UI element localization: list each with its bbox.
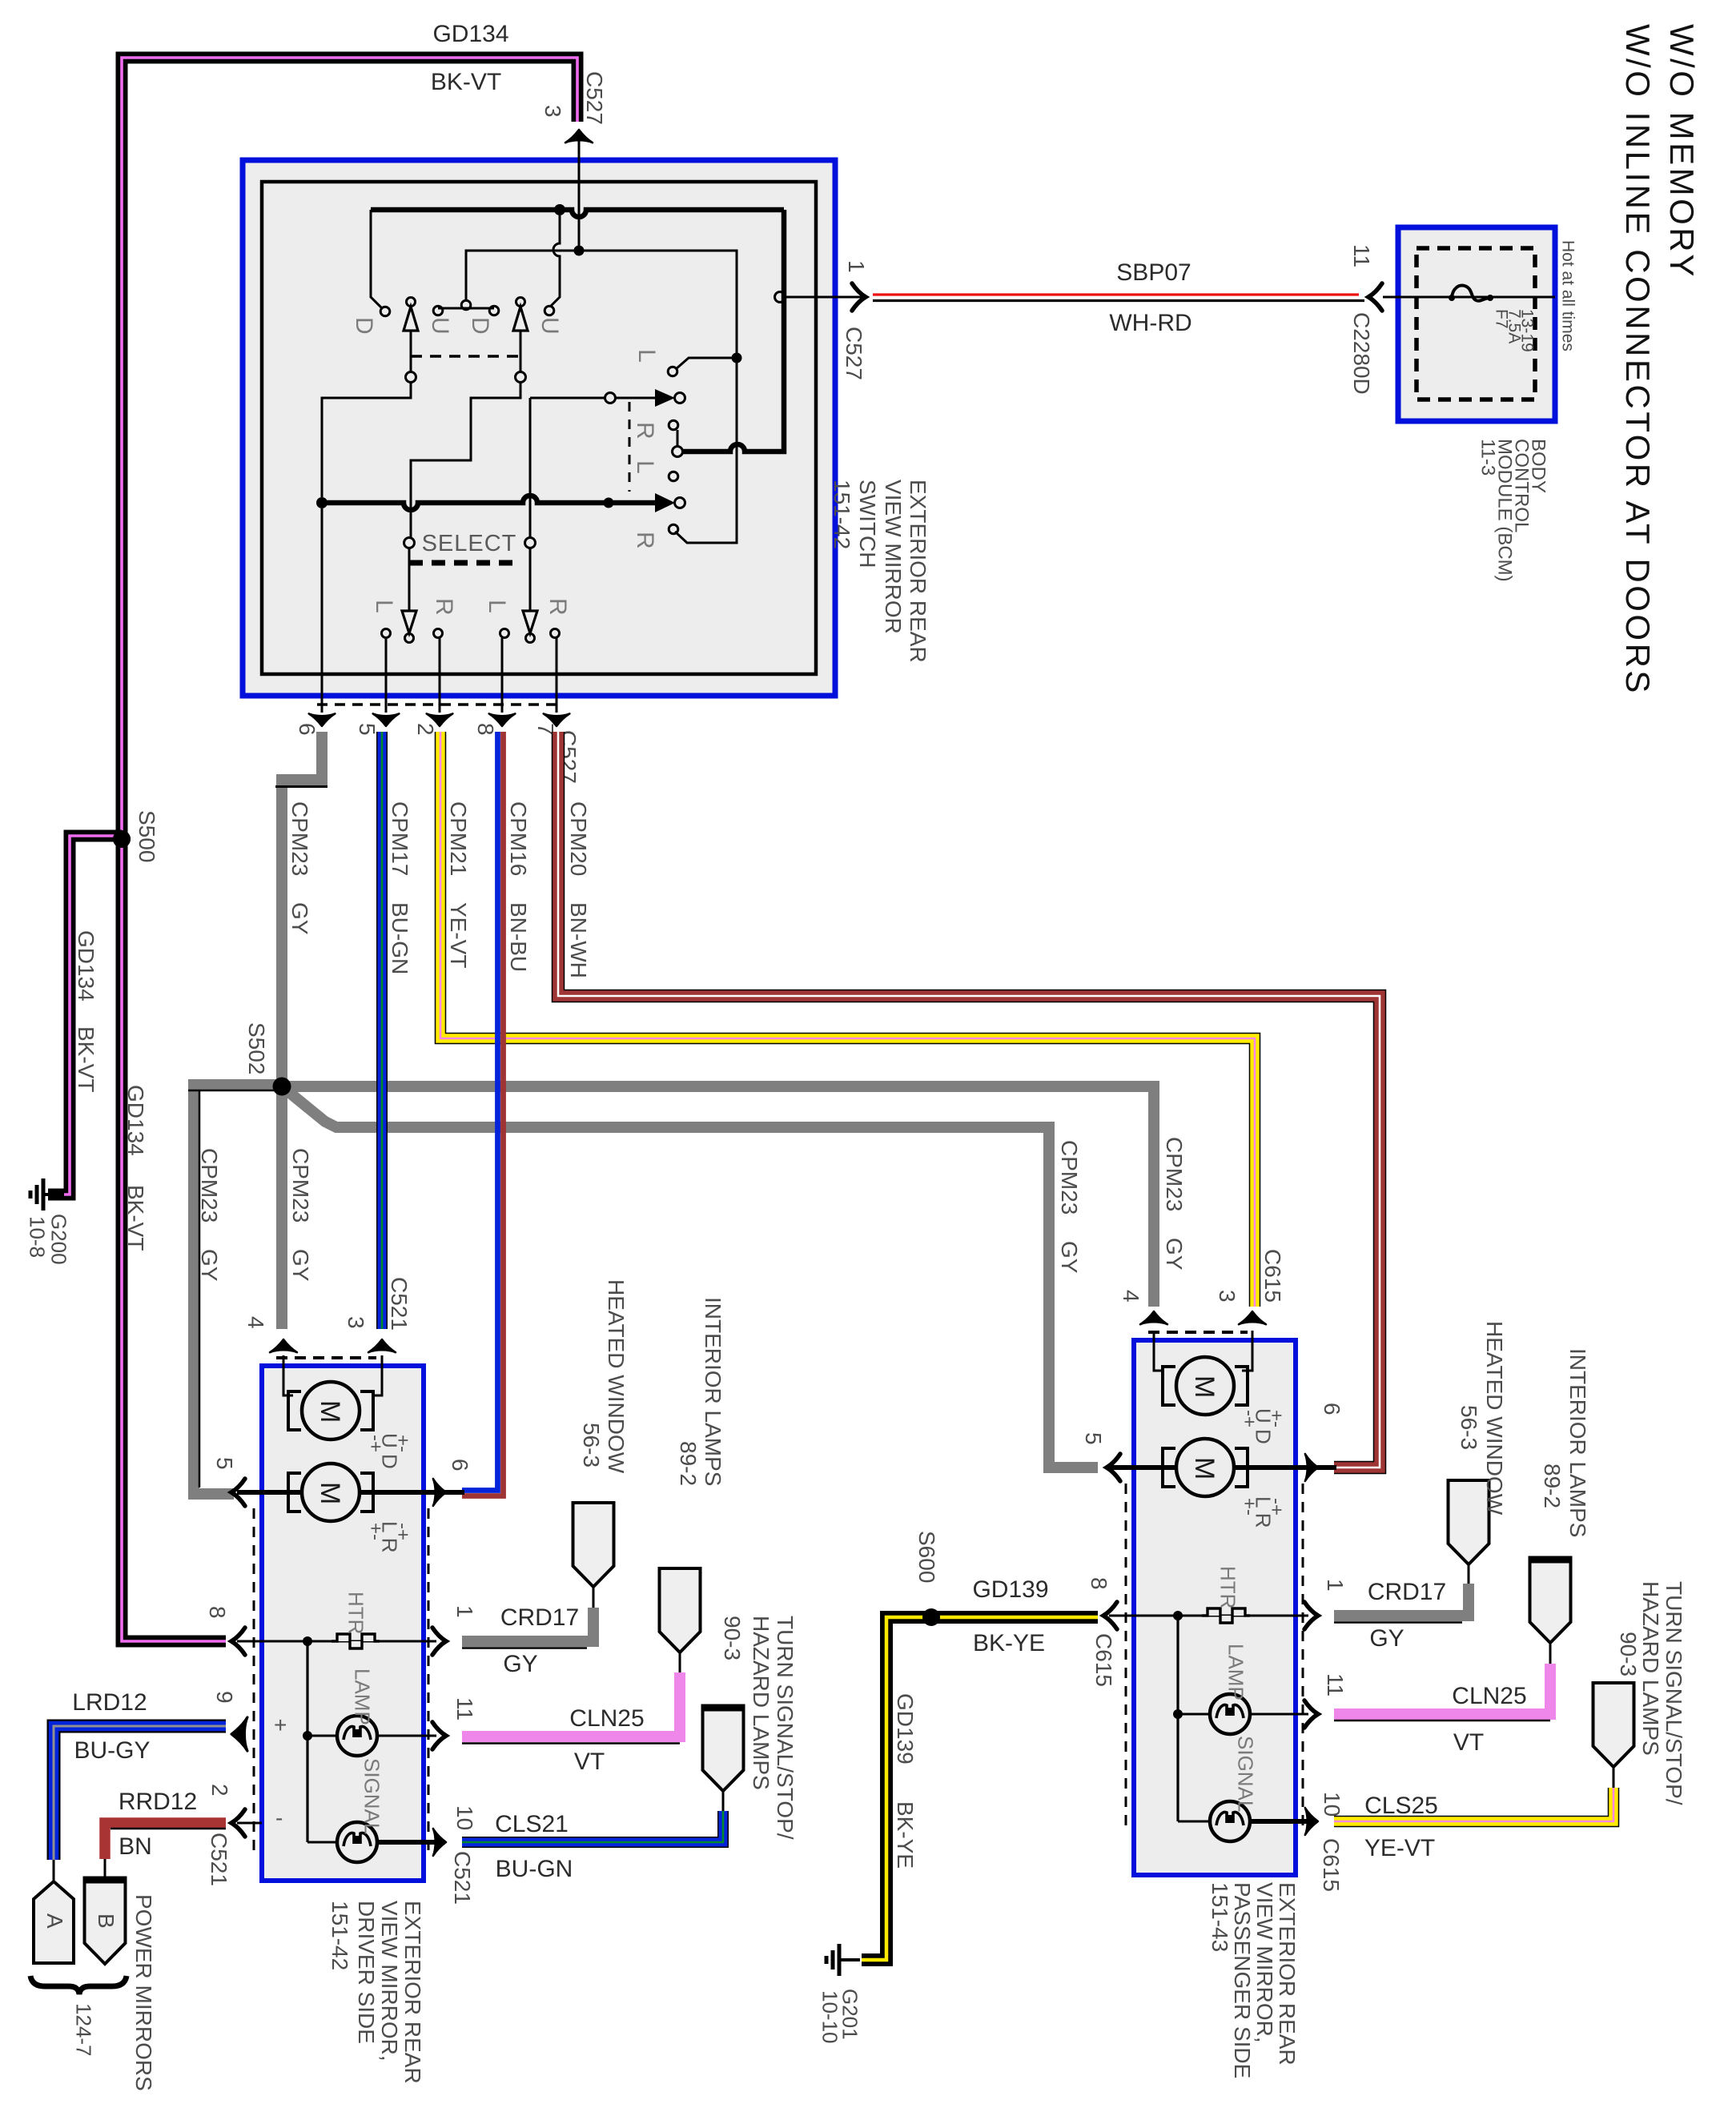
svg-text:EXTERIOR REAR: EXTERIOR REAR bbox=[906, 480, 930, 663]
switch connector dashed line bbox=[317, 703, 561, 706]
contact ring L top bbox=[668, 367, 677, 376]
wire CLN25 VT driver bbox=[462, 1672, 680, 1737]
svg-text:3: 3 bbox=[344, 1316, 368, 1329]
driver connector dashed left bbox=[253, 1508, 255, 1856]
wire SBP07 black line bbox=[873, 299, 1364, 302]
svg-text:C527: C527 bbox=[842, 327, 866, 380]
pin8 line in switch bbox=[501, 638, 504, 713]
second line right segment bbox=[579, 251, 737, 543]
wire CLS21 BU-GN driver bbox=[462, 1811, 723, 1842]
wire CPM23 GY from pin6 bbox=[282, 732, 322, 1082]
svg-text:CPM23: CPM23 bbox=[287, 801, 312, 876]
svg-text:10: 10 bbox=[452, 1805, 477, 1830]
ground G200 bbox=[44, 1193, 64, 1196]
svg-text:CLS25: CLS25 bbox=[1364, 1793, 1438, 1819]
exterior rear view mirror switch box bbox=[243, 160, 835, 696]
node S502 bbox=[273, 1078, 291, 1095]
svg-text:90-3: 90-3 bbox=[720, 1616, 745, 1660]
thick drop right and R-upper feed bbox=[683, 210, 784, 452]
left pole to select-bus path bbox=[322, 382, 411, 497]
svg-text:A: A bbox=[42, 1913, 67, 1929]
dashed link LR poles bbox=[629, 402, 631, 492]
flag turn signal driver bbox=[703, 1707, 744, 1791]
contact ring D left bbox=[380, 307, 390, 316]
svg-text:BN: BN bbox=[119, 1833, 152, 1860]
blade arrow UD right pole bbox=[516, 298, 525, 307]
svg-text:D: D bbox=[467, 317, 493, 335]
upper L/R line bbox=[530, 397, 605, 400]
node dot on vertical x920 bbox=[732, 353, 742, 363]
passenger dashed right bbox=[1302, 1484, 1304, 1832]
passenger dashed top bbox=[1148, 1331, 1248, 1334]
second line from pin3 bbox=[466, 251, 579, 299]
select blade left bbox=[408, 548, 411, 612]
node S502 overlay dot bbox=[273, 1078, 291, 1096]
svg-text:EXTERIOR REAR: EXTERIOR REAR bbox=[1275, 1882, 1300, 2066]
svg-text:M: M bbox=[1189, 1457, 1220, 1480]
wire GD134 BK-VT ground branch bbox=[48, 836, 122, 1195]
node S500 overlay dot bbox=[113, 830, 131, 848]
svg-text:90-3: 90-3 bbox=[1616, 1632, 1641, 1676]
wire BK-VT to driver pin 8 bbox=[122, 1633, 226, 1641]
connector A flag bbox=[34, 1881, 74, 1963]
svg-text:-: - bbox=[275, 1805, 283, 1830]
svg-text:HAZARD LAMPS: HAZARD LAMPS bbox=[1638, 1581, 1663, 1756]
svg-text:GY: GY bbox=[197, 1249, 222, 1282]
svg-text:-+: -+ bbox=[392, 1523, 413, 1540]
svg-text:CPM17: CPM17 bbox=[388, 801, 412, 876]
svg-text:R: R bbox=[431, 598, 457, 616]
svg-text:CPM20: CPM20 bbox=[566, 801, 591, 876]
svg-text:BK-YE: BK-YE bbox=[973, 1630, 1045, 1656]
svg-text:INTERIOR LAMPS: INTERIOR LAMPS bbox=[1565, 1348, 1590, 1537]
svg-text:HTR: HTR bbox=[1216, 1566, 1240, 1608]
svg-text:LRD12: LRD12 bbox=[72, 1689, 147, 1716]
driver pin 9 arrow bbox=[231, 1717, 247, 1751]
driver lamp bulb bbox=[337, 1716, 377, 1756]
svg-text:L: L bbox=[633, 349, 660, 363]
svg-text:10-8: 10-8 bbox=[26, 1216, 50, 1258]
svg-text:M: M bbox=[315, 1482, 345, 1504]
select bus tap dot bbox=[604, 498, 614, 508]
svg-text:GD139: GD139 bbox=[893, 1693, 918, 1765]
svg-text:CPM23: CPM23 bbox=[1057, 1140, 1082, 1215]
pin 1 arrow bbox=[852, 283, 866, 311]
driver signal bulb bbox=[337, 1822, 377, 1862]
svg-text:56-3: 56-3 bbox=[1457, 1405, 1481, 1450]
select contacts bbox=[404, 538, 415, 548]
select bus blade segment bbox=[613, 500, 655, 506]
svg-text:CLS21: CLS21 bbox=[495, 1811, 569, 1837]
body control module box bbox=[1398, 227, 1555, 421]
svg-text:U: U bbox=[427, 317, 453, 335]
bus left drop to D contact bbox=[371, 210, 382, 308]
pin1 tap ring bbox=[775, 292, 786, 303]
driver pin 11 arrow bbox=[432, 1722, 446, 1749]
svg-text:DRIVER SIDE: DRIVER SIDE bbox=[354, 1901, 379, 2044]
passenger pin 4 arrow bbox=[1140, 1311, 1167, 1324]
svg-text:BU-GN: BU-GN bbox=[496, 1856, 573, 1882]
driver SIGNAL elbow bbox=[307, 1841, 336, 1844]
passenger pin 3 arrow bbox=[1239, 1311, 1266, 1324]
passenger motor UD bbox=[1163, 1367, 1175, 1405]
flag heated window passenger bbox=[1449, 1480, 1489, 1564]
contact ring U left bbox=[433, 306, 443, 315]
svg-text:1: 1 bbox=[452, 1605, 477, 1618]
wire CPM23 GY S502 to passenger pin4 bbox=[282, 1086, 1154, 1307]
svg-text:R: R bbox=[632, 532, 658, 549]
svg-text:POWER MIRRORS: POWER MIRRORS bbox=[131, 1894, 156, 2091]
svg-text:3: 3 bbox=[1215, 1290, 1240, 1303]
contact ring D right bbox=[489, 306, 499, 315]
passenger pin 10 arrow bbox=[1305, 1808, 1318, 1835]
svg-text:3: 3 bbox=[540, 105, 565, 118]
passenger pin 8 arrow bbox=[1103, 1602, 1117, 1629]
svg-text:W/O MEMORY: W/O MEMORY bbox=[1663, 24, 1701, 279]
select blade right bbox=[529, 548, 532, 612]
svg-text:8: 8 bbox=[473, 723, 498, 736]
wire CRD17 GY driver bbox=[462, 1608, 593, 1641]
svg-text:1: 1 bbox=[1323, 1579, 1348, 1592]
svg-text:VIEW MIRROR,: VIEW MIRROR, bbox=[377, 1901, 402, 2062]
wire SBP07 red stripe bbox=[873, 293, 1359, 295]
svg-text:M: M bbox=[1189, 1375, 1220, 1398]
svg-text:LAMP: LAMP bbox=[351, 1668, 375, 1725]
svg-text:8: 8 bbox=[1087, 1577, 1111, 1590]
svg-text:4: 4 bbox=[243, 1316, 268, 1329]
svg-text:B: B bbox=[94, 1913, 119, 1929]
passenger pin 6 arrow bbox=[1305, 1454, 1318, 1481]
svg-text:HEATED WINDOW: HEATED WINDOW bbox=[604, 1279, 629, 1474]
svg-text:5: 5 bbox=[212, 1457, 237, 1470]
flag interior lamps passenger bbox=[1530, 1559, 1571, 1643]
svg-text:EXTERIOR REAR: EXTERIOR REAR bbox=[400, 1901, 425, 2084]
passenger lamp bulb bbox=[1210, 1694, 1250, 1734]
svg-text:GY: GY bbox=[288, 1249, 313, 1282]
svg-text:11: 11 bbox=[452, 1697, 477, 1720]
driver HTR line bbox=[237, 1640, 436, 1643]
svg-text:D: D bbox=[351, 317, 377, 335]
svg-text:10: 10 bbox=[1320, 1792, 1344, 1817]
pin1 line bbox=[786, 296, 862, 299]
wire CLN25 VT passenger bbox=[1334, 1664, 1550, 1714]
driver pin 4 arrow bbox=[270, 1339, 297, 1352]
svg-text:SWITCH: SWITCH bbox=[855, 480, 880, 568]
passenger signal bulb bbox=[1210, 1801, 1250, 1841]
pole ring thick bbox=[673, 447, 683, 457]
BCM fuse dashed box bbox=[1417, 248, 1535, 400]
svg-text:11-3: 11-3 bbox=[1477, 439, 1498, 476]
svg-text:TURN SIGNAL/STOP/: TURN SIGNAL/STOP/ bbox=[773, 1616, 798, 1840]
driver LR line bbox=[237, 1490, 464, 1495]
svg-text:PASSENGER SIDE: PASSENGER SIDE bbox=[1230, 1882, 1255, 2078]
svg-text:+-: +- bbox=[392, 1435, 413, 1452]
ground G201 bbox=[840, 1958, 860, 1961]
svg-text:GY: GY bbox=[1369, 1625, 1404, 1652]
svg-text:C615: C615 bbox=[1319, 1838, 1344, 1892]
svg-text:5: 5 bbox=[1081, 1432, 1106, 1445]
svg-text:+: + bbox=[274, 1712, 287, 1737]
select blade arrow lower bbox=[655, 493, 675, 512]
passenger motor LR bbox=[1163, 1448, 1175, 1487]
svg-text:C527: C527 bbox=[582, 71, 607, 125]
svg-text:S500: S500 bbox=[135, 810, 159, 862]
upper blade arrow bbox=[655, 389, 675, 407]
svg-text:YE-VT: YE-VT bbox=[446, 902, 471, 968]
svg-text:4: 4 bbox=[1119, 1290, 1143, 1303]
passenger dashed left bbox=[1125, 1484, 1127, 1832]
svg-text:RRD12: RRD12 bbox=[119, 1789, 197, 1815]
wire CLS25 YE-VT passenger bbox=[1334, 1788, 1613, 1821]
fuse F7 element bbox=[1449, 295, 1455, 301]
svg-text:Hot at all times: Hot at all times bbox=[1558, 240, 1577, 351]
svg-text:R: R bbox=[632, 422, 658, 440]
svg-text:CPM16: CPM16 bbox=[506, 801, 531, 876]
svg-text:2: 2 bbox=[413, 723, 438, 736]
svg-text:G200: G200 bbox=[47, 1214, 71, 1265]
driver HTR resistor bbox=[332, 1634, 380, 1648]
svg-text:CPM23: CPM23 bbox=[1162, 1137, 1187, 1211]
svg-text:L: L bbox=[632, 460, 658, 474]
passenger HTR line bbox=[1109, 1615, 1308, 1617]
upper line ring bbox=[605, 393, 616, 404]
svg-text:SELECT: SELECT bbox=[422, 531, 517, 556]
svg-text:M: M bbox=[315, 1400, 345, 1423]
driver pin 1 arrow bbox=[432, 1628, 446, 1655]
contact ring R lower bbox=[669, 524, 678, 534]
link R-upper contact bbox=[677, 430, 679, 447]
svg-text:VIEW MIRROR: VIEW MIRROR bbox=[881, 480, 906, 634]
svg-text:CRD17: CRD17 bbox=[500, 1604, 579, 1631]
svg-text:VT: VT bbox=[574, 1749, 605, 1775]
svg-text:11: 11 bbox=[1323, 1673, 1348, 1696]
svg-text:2: 2 bbox=[207, 1784, 232, 1797]
contact ring R upper bbox=[669, 420, 678, 430]
svg-text:GY: GY bbox=[1162, 1238, 1187, 1271]
svg-text:89-2: 89-2 bbox=[1540, 1464, 1565, 1508]
wire GD139 BK-YE bbox=[862, 1617, 1098, 1960]
wire CRD17 GY passenger bbox=[1334, 1584, 1469, 1616]
driver mirror box bbox=[262, 1366, 424, 1881]
select bus left dot bbox=[316, 497, 328, 508]
driver bus dot LAMP bbox=[303, 1731, 312, 1741]
svg-text:CRD17: CRD17 bbox=[1368, 1579, 1446, 1605]
switch inner frame bbox=[262, 182, 816, 674]
wire CPM23 GY S502 to driver pin4 bbox=[276, 1091, 287, 1329]
pin2 line in switch bbox=[439, 638, 441, 713]
wire CPM23 GY S502 left branch bbox=[194, 1085, 282, 1494]
upper line blade segment bbox=[615, 397, 655, 400]
BCM wire line bbox=[1383, 296, 1555, 299]
svg-text:GD139: GD139 bbox=[972, 1576, 1048, 1603]
svg-text:U: U bbox=[536, 317, 563, 335]
svg-text:L: L bbox=[484, 600, 510, 613]
svg-text:10-10: 10-10 bbox=[818, 1990, 842, 2044]
passenger SIGNAL right line bbox=[1251, 1819, 1308, 1824]
node dot pin3-second line bbox=[574, 246, 585, 256]
wire CPM23 GY S502 diagonal to passenger pin5 bbox=[282, 1086, 1098, 1468]
driver pin 2 arrow bbox=[231, 1809, 245, 1837]
driver pin 3 arrow bbox=[368, 1339, 396, 1352]
svg-text:C521: C521 bbox=[387, 1277, 412, 1331]
passenger bus dot HTR bbox=[1173, 1611, 1183, 1620]
driver SIGNAL right line bbox=[378, 1840, 436, 1845]
passenger bus dot LAMP bbox=[1173, 1709, 1183, 1719]
passenger internal bus bbox=[1176, 1616, 1179, 1821]
svg-text:S600: S600 bbox=[914, 1531, 939, 1583]
svg-text:VT: VT bbox=[1453, 1729, 1484, 1756]
wire CPM21 YE-VT pin2 to passenger pin3 bbox=[440, 732, 1255, 1307]
svg-text:-+: -+ bbox=[1265, 1498, 1287, 1516]
svg-text:C615: C615 bbox=[1260, 1249, 1285, 1303]
svg-text:8: 8 bbox=[205, 1606, 230, 1619]
svg-text:BN-WH: BN-WH bbox=[566, 902, 591, 978]
svg-text:CLN25: CLN25 bbox=[569, 1705, 644, 1732]
svg-text:GD134: GD134 bbox=[74, 930, 98, 1002]
svg-text:INTERIOR LAMPS: INTERIOR LAMPS bbox=[701, 1297, 725, 1486]
wire RRD12 BN bbox=[105, 1823, 226, 1859]
svg-text:S502: S502 bbox=[244, 1022, 269, 1074]
svg-text:56-3: 56-3 bbox=[579, 1423, 604, 1468]
svg-text:9: 9 bbox=[212, 1691, 237, 1704]
passenger pin 1 arrow bbox=[1304, 1602, 1318, 1629]
svg-text:SBP07: SBP07 bbox=[1116, 259, 1191, 286]
riser to select-right contact bbox=[529, 398, 532, 538]
svg-text:TURN SIGNAL/STOP/: TURN SIGNAL/STOP/ bbox=[1662, 1581, 1686, 1805]
contact ring L lower bbox=[669, 472, 678, 481]
svg-text:89-2: 89-2 bbox=[676, 1441, 701, 1486]
svg-text:YE-VT: YE-VT bbox=[1364, 1835, 1435, 1861]
svg-text:151-43: 151-43 bbox=[1208, 1882, 1232, 1952]
svg-text:CPM23: CPM23 bbox=[288, 1148, 313, 1223]
contact ring link center bbox=[461, 300, 471, 310]
driver pin 8 arrow bbox=[231, 1628, 245, 1655]
node S600 bbox=[922, 1608, 940, 1626]
wire pin3 into switch bbox=[578, 141, 581, 251]
pin 3 arrow (switch top) bbox=[565, 130, 593, 143]
svg-text:BU-GN: BU-GN bbox=[388, 902, 412, 974]
passenger pin 11 arrow bbox=[1304, 1700, 1318, 1728]
right pole zigzag path bbox=[411, 382, 520, 538]
svg-text:C2280D: C2280D bbox=[1349, 312, 1374, 395]
pin 11 arrow (BCM) bbox=[1368, 283, 1382, 311]
svg-text:CPM23: CPM23 bbox=[197, 1148, 222, 1223]
svg-text:6: 6 bbox=[295, 723, 319, 736]
switch pin arrows bbox=[309, 713, 336, 726]
bottom contact rings bbox=[382, 629, 391, 638]
svg-text:151-42: 151-42 bbox=[830, 480, 854, 549]
passenger UD motor wires bbox=[1154, 1331, 1252, 1371]
passenger pin 5 arrow bbox=[1107, 1454, 1120, 1481]
svg-text:HAZARD LAMPS: HAZARD LAMPS bbox=[749, 1616, 774, 1790]
svg-text:GD134: GD134 bbox=[123, 1085, 148, 1156]
driver dashed top bbox=[276, 1356, 376, 1359]
driver motor UD bbox=[288, 1391, 301, 1430]
svg-text:GD134: GD134 bbox=[432, 21, 508, 47]
driver connector dashed right bbox=[428, 1508, 430, 1856]
wire GD134 BK-VT main run bbox=[122, 58, 577, 1641]
svg-text:GY: GY bbox=[503, 1651, 537, 1677]
svg-text:HEATED WINDOW: HEATED WINDOW bbox=[1482, 1321, 1507, 1516]
driver pin 6 arrow bbox=[433, 1479, 446, 1506]
flag interior lamps driver bbox=[660, 1568, 701, 1652]
blade arrow UD left pole bbox=[407, 298, 416, 307]
svg-text:BK-VT: BK-VT bbox=[431, 69, 501, 95]
pin7 line in switch bbox=[556, 638, 558, 713]
driver pin2 stub bbox=[237, 1822, 262, 1825]
svg-text:BU-GY: BU-GY bbox=[74, 1737, 150, 1764]
passenger LR line bbox=[1109, 1465, 1336, 1470]
node S500 bbox=[113, 830, 131, 848]
wire into B bbox=[104, 1859, 106, 1881]
pin6 line in switch bbox=[321, 508, 323, 713]
svg-text:CLN25: CLN25 bbox=[1452, 1683, 1526, 1709]
svg-text:VIEW MIRROR,: VIEW MIRROR, bbox=[1252, 1882, 1277, 2043]
driver bus dot HTR bbox=[303, 1636, 312, 1646]
wire CPM17 BU-GN pin5 to driver pin3 bbox=[376, 732, 388, 1329]
svg-text:1: 1 bbox=[844, 260, 869, 273]
svg-text:BK-VT: BK-VT bbox=[123, 1185, 148, 1251]
driver pin 5 arrow bbox=[231, 1479, 245, 1506]
driver pin 10 arrow bbox=[433, 1829, 446, 1856]
wire into A bbox=[53, 1860, 55, 1883]
dashed link UD poles bbox=[411, 355, 520, 358]
svg-text:BN-BU: BN-BU bbox=[506, 902, 531, 972]
svg-text:CPM21: CPM21 bbox=[446, 801, 471, 876]
svg-text:C521: C521 bbox=[450, 1851, 475, 1905]
svg-text:13-19: 13-19 bbox=[1517, 309, 1536, 352]
driver internal bus bbox=[306, 1641, 308, 1842]
svg-text:BK-VT: BK-VT bbox=[74, 1026, 98, 1092]
wire LRD12 BU-GY bbox=[54, 1726, 226, 1860]
svg-text:W/O INLINE CONNECTOR AT DOORS: W/O INLINE CONNECTOR AT DOORS bbox=[1619, 24, 1657, 696]
select dashed bar bbox=[409, 560, 521, 566]
passenger SIGNAL elbow bbox=[1178, 1821, 1209, 1823]
svg-text:11: 11 bbox=[1349, 244, 1374, 267]
bus junction dot bbox=[554, 204, 565, 215]
driver LAMP line bbox=[307, 1735, 436, 1737]
passenger HTR resistor bbox=[1202, 1608, 1250, 1623]
passenger mirror box bbox=[1134, 1340, 1296, 1875]
wire CPM16 BN-BU pin8 to driver pin6 bbox=[462, 732, 504, 1496]
svg-text:GY: GY bbox=[1057, 1241, 1082, 1274]
svg-text:BK-YE: BK-YE bbox=[893, 1801, 918, 1869]
svg-text:R: R bbox=[545, 598, 571, 616]
pin5 line in switch bbox=[385, 638, 388, 713]
switch thick bus bbox=[371, 210, 784, 217]
svg-text:C521: C521 bbox=[207, 1833, 231, 1886]
connector B flag bbox=[85, 1879, 126, 1964]
driver UD motor wires bbox=[283, 1355, 382, 1395]
svg-text:124-7: 124-7 bbox=[72, 2003, 96, 2057]
svg-text:LAMP: LAMP bbox=[1224, 1644, 1248, 1700]
brace 124-7 bbox=[30, 1976, 127, 1994]
flag turn signal passenger bbox=[1593, 1683, 1634, 1767]
passenger LAMP line bbox=[1178, 1713, 1308, 1716]
contact ring U right bbox=[545, 306, 554, 315]
svg-text:6: 6 bbox=[1320, 1403, 1344, 1415]
svg-text:GY: GY bbox=[287, 902, 312, 935]
svg-text:SIGNAL: SIGNAL bbox=[360, 1758, 384, 1834]
wire CPM20 BN-WH pin7 to passenger pin6 bbox=[558, 732, 1380, 1468]
link line U-D bbox=[438, 307, 494, 310]
svg-text:+-: +- bbox=[1265, 1410, 1287, 1427]
svg-text:C615: C615 bbox=[1091, 1633, 1116, 1687]
driver motor LR bbox=[288, 1473, 301, 1512]
svg-text:WH-RD: WH-RD bbox=[1109, 310, 1191, 336]
branch to L contact bbox=[676, 358, 737, 369]
flag heated window driver bbox=[573, 1503, 614, 1587]
